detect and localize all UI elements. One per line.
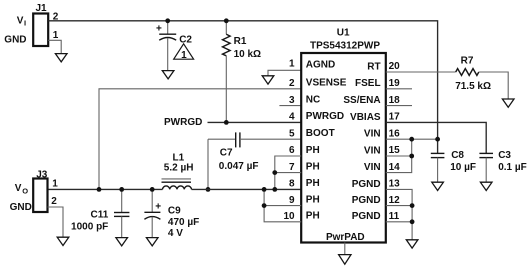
- J1 pin 2 number: [53, 11, 59, 22]
- U1 pin number 6: [289, 145, 295, 156]
- capacitor C9: [144, 189, 199, 239]
- junction dot PGND pin11: [410, 219, 415, 224]
- U1 pin 3 label NC: [306, 94, 320, 105]
- U1 pin 19 label FSEL: [355, 78, 381, 89]
- svg-text:17: 17: [389, 112, 401, 123]
- svg-text:1000 pF: 1000 pF: [71, 221, 108, 232]
- junction dot C11: [119, 187, 124, 192]
- svg-text:19: 19: [389, 78, 401, 89]
- U1 pin 2 label VSENSE: [306, 78, 347, 89]
- svg-text:R1: R1: [234, 36, 247, 47]
- svg-text:VIN: VIN: [364, 162, 381, 173]
- svg-text:PH: PH: [306, 161, 320, 172]
- svg-text:FSEL: FSEL: [355, 78, 381, 89]
- svg-text:8: 8: [289, 179, 295, 190]
- svg-text:NC: NC: [306, 94, 320, 105]
- ground at C11: [116, 238, 128, 246]
- capacitor C11: [71, 189, 129, 237]
- svg-text:+: +: [155, 202, 161, 213]
- capacitor C3: [479, 150, 526, 182]
- svg-text:GND: GND: [10, 202, 32, 213]
- svg-text:+: +: [156, 23, 162, 34]
- U1 pin number 3: [289, 95, 295, 106]
- svg-text:U1: U1: [337, 28, 350, 39]
- U1 pin number 12: [389, 195, 401, 206]
- junction dot VIN pin16: [409, 137, 414, 142]
- U1 pin 16 label VIN: [364, 129, 381, 140]
- U1 pin number 13: [389, 179, 401, 190]
- junction dot VIN pin15: [409, 154, 414, 159]
- svg-text:PH: PH: [306, 145, 320, 156]
- U1 pin number 11: [389, 211, 400, 222]
- junction dot VSENSE/output: [97, 187, 102, 192]
- U1 pin 18 label SS/ENA: [343, 95, 380, 106]
- svg-text:7: 7: [289, 162, 295, 173]
- svg-text:12: 12: [389, 195, 401, 206]
- wire VSENSE pin2 to output: [99, 89, 301, 190]
- svg-text:TPS54312PWP: TPS54312PWP: [310, 40, 380, 51]
- wire RT pin20 to R7: [386, 71, 456, 73]
- junction dot R1/PWRGD: [224, 120, 229, 125]
- ground at AGND: [262, 76, 274, 84]
- U1 pin 7 label PH: [306, 161, 320, 172]
- svg-text:2: 2: [51, 196, 57, 207]
- junction dot PH pin9: [262, 203, 267, 208]
- svg-text:PwrPAD: PwrPAD: [326, 232, 365, 243]
- svg-text:11: 11: [389, 211, 400, 222]
- capacitor C7: [208, 132, 301, 171]
- J1 net label GND: [4, 35, 26, 46]
- svg-text:C3: C3: [498, 150, 511, 161]
- wire AGND pin1 to ground: [268, 70, 301, 76]
- U1 pin number 1: [289, 58, 295, 69]
- svg-text:3: 3: [289, 95, 295, 106]
- J1 pin 1 number: [53, 30, 59, 41]
- svg-text:SS/ENA: SS/ENA: [343, 95, 380, 106]
- wire output rail: [48, 188, 302, 190]
- svg-text:6: 6: [289, 145, 295, 156]
- svg-text:BOOT: BOOT: [306, 128, 335, 139]
- U1 pin number 7: [289, 162, 295, 173]
- wire NC pin3 stub: [279, 105, 301, 107]
- ground at J1 pin1: [55, 54, 67, 62]
- note marker triangle 1: [174, 44, 194, 61]
- ground at C3: [480, 182, 492, 190]
- svg-text:4 V: 4 V: [168, 228, 183, 239]
- svg-text:9: 9: [289, 195, 295, 206]
- svg-text:C2: C2: [179, 34, 192, 45]
- J1 net label VI: [17, 16, 26, 28]
- U1 pin 15 label VIN: [364, 145, 381, 156]
- wire J3 pin2 to ground: [48, 207, 64, 237]
- svg-text:2: 2: [289, 78, 295, 89]
- svg-text:18: 18: [389, 95, 401, 106]
- svg-text:PH: PH: [306, 194, 320, 205]
- svg-text:C7: C7: [220, 148, 233, 159]
- svg-text:AGND: AGND: [306, 59, 335, 70]
- svg-text:5: 5: [289, 128, 295, 139]
- junction dot PH pin7: [272, 170, 277, 175]
- U1 pin number 5: [289, 128, 295, 139]
- U1 pin number 16: [389, 128, 401, 139]
- resistor R7: [455, 55, 491, 91]
- junction dot VIN rail: [435, 137, 440, 142]
- op-amp U1 TPS54312PWP box: [301, 28, 386, 244]
- svg-text:1: 1: [52, 179, 58, 190]
- svg-text:PH: PH: [306, 178, 320, 189]
- U1 pin 9 label PH: [306, 194, 320, 205]
- wire PWRGD to pin4: [208, 121, 302, 123]
- svg-text:VIN: VIN: [364, 145, 381, 156]
- svg-text:1: 1: [289, 58, 295, 69]
- svg-text:V: V: [17, 16, 24, 27]
- svg-text:14: 14: [389, 162, 401, 173]
- wire R7 to ground: [479, 72, 508, 99]
- wire PH pins 6,7 bus: [275, 156, 301, 189]
- J3 pin 2 number: [51, 196, 57, 207]
- svg-text:0.1 µF: 0.1 µF: [498, 162, 527, 173]
- svg-text:J1: J1: [35, 3, 47, 14]
- U1 pin number 19: [389, 78, 401, 89]
- wire SS/ENA pin18 stub: [386, 105, 412, 107]
- svg-text:10: 10: [283, 211, 295, 222]
- svg-text:VIN: VIN: [364, 129, 381, 140]
- svg-text:71.5 kΩ: 71.5 kΩ: [455, 81, 491, 92]
- ground at PGND: [406, 240, 418, 248]
- svg-text:0.047 µF: 0.047 µF: [219, 161, 259, 172]
- wire FSEL pin19 stub: [386, 88, 412, 90]
- U1 pin 20 label RT: [367, 61, 380, 72]
- svg-text:VBIAS: VBIAS: [350, 112, 381, 123]
- ground at R7: [502, 99, 514, 107]
- wire C7 to PH rail: [207, 139, 209, 189]
- U1 pin number 14: [389, 162, 401, 173]
- svg-text:PWRGD: PWRGD: [306, 111, 344, 122]
- svg-text:R7: R7: [461, 55, 474, 66]
- svg-text:VSENSE: VSENSE: [306, 78, 347, 89]
- wire VIN pins 16,15,14 bus: [386, 139, 438, 172]
- U1 pin number 18: [389, 95, 401, 106]
- connector J3: [33, 169, 48, 212]
- svg-text:16: 16: [389, 128, 401, 139]
- junction dot C7/PH: [206, 187, 211, 192]
- junction dot C9: [150, 187, 155, 192]
- U1 pin number 10: [283, 211, 295, 222]
- ground at C2: [162, 71, 174, 79]
- U1 pin 8 label PH: [306, 178, 320, 189]
- svg-text:PH: PH: [306, 211, 320, 222]
- U1 pin number 2: [289, 78, 295, 89]
- wire VBIAS pin17 to C3: [386, 122, 486, 153]
- svg-text:V: V: [15, 183, 22, 194]
- J3 net label VO: [15, 183, 28, 195]
- J3 pin 1 number: [52, 179, 58, 190]
- U1 pin number 8: [289, 179, 295, 190]
- svg-text:10 µF: 10 µF: [450, 162, 476, 173]
- svg-text:C11: C11: [91, 209, 109, 220]
- svg-text:PGND: PGND: [352, 211, 381, 222]
- U1 pin number 20: [389, 61, 401, 72]
- junction dot C2 on top rail: [165, 18, 170, 23]
- junction dot PH rail bus: [262, 187, 267, 192]
- svg-text:C9: C9: [168, 206, 181, 217]
- wire PGND pins 13,12,11 bus: [386, 189, 412, 239]
- svg-text:5.2 µH: 5.2 µH: [164, 163, 194, 174]
- ground at C9: [146, 238, 158, 246]
- svg-text:10 kΩ: 10 kΩ: [234, 49, 261, 60]
- svg-text:PGND: PGND: [352, 179, 381, 190]
- U1 pin 11 label PGND: [352, 211, 381, 222]
- svg-text:20: 20: [389, 61, 401, 72]
- U1 pin 13 label PGND: [352, 179, 381, 190]
- U1 pin 12 label PGND: [352, 195, 381, 206]
- svg-text:J3: J3: [36, 169, 48, 180]
- svg-text:PWRGD: PWRGD: [164, 117, 202, 128]
- ground at PwrPAD: [339, 255, 351, 265]
- junction dot R1 on top rail: [224, 18, 229, 23]
- svg-text:RT: RT: [367, 61, 380, 72]
- inductor L1: [162, 153, 194, 190]
- svg-text:O: O: [22, 186, 28, 195]
- capacitor C2: [156, 21, 192, 71]
- svg-text:470 µF: 470 µF: [168, 217, 199, 228]
- node PWRGD: [164, 117, 202, 128]
- J3 net label GND: [10, 202, 32, 213]
- U1 pin 1 label AGND: [306, 59, 335, 70]
- svg-text:13: 13: [389, 179, 401, 190]
- junction dot PGND pin12: [410, 203, 415, 208]
- junction dot PH pin8 bus: [272, 187, 277, 192]
- wire PwrPAD to ground: [344, 243, 346, 255]
- U1 pin 14 label VIN: [364, 162, 381, 173]
- U1 pin number 9: [289, 195, 295, 206]
- U1 pin number 17: [389, 112, 401, 123]
- U1 pin 17 label VBIAS: [350, 112, 381, 123]
- wire J1 pin1 to ground: [48, 40, 61, 53]
- ground at J3 pin2: [57, 237, 69, 245]
- wire VIN top rail: [48, 21, 437, 153]
- U1 pin 10 label PH: [306, 211, 320, 222]
- U1 pin 5 label BOOT: [306, 128, 335, 139]
- U1 pin number 15: [389, 145, 401, 156]
- svg-text:GND: GND: [4, 35, 26, 46]
- U1 pin 4 label PWRGD: [306, 111, 344, 122]
- U1 pin number 4: [289, 112, 295, 123]
- svg-text:PGND: PGND: [352, 195, 381, 206]
- svg-text:15: 15: [389, 145, 401, 156]
- connector J1: [33, 3, 48, 46]
- svg-text:1: 1: [53, 30, 59, 41]
- svg-text:I: I: [24, 18, 26, 27]
- resistor R1: [223, 21, 262, 123]
- capacitor C8: [431, 150, 476, 182]
- svg-text:4: 4: [289, 112, 295, 123]
- svg-text:1: 1: [181, 50, 187, 61]
- ground at C8: [432, 182, 444, 190]
- svg-text:C8: C8: [451, 150, 464, 161]
- U1 pin 6 label PH: [306, 145, 320, 156]
- wire PH pins 9,10 bus: [264, 189, 301, 221]
